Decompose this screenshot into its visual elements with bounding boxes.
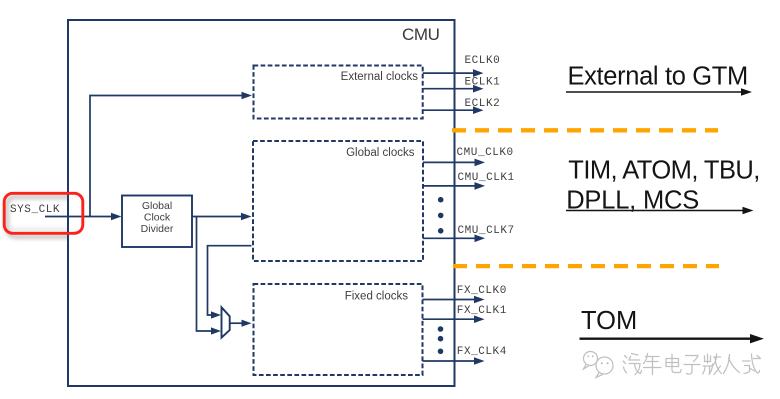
svg-text:CMU_CLK0: CMU_CLK0: [457, 147, 514, 159]
svg-text:ECLK0: ECLK0: [465, 55, 501, 67]
svg-text:FX_CLK4: FX_CLK4: [457, 346, 507, 358]
svg-text:FX_CLK1: FX_CLK1: [457, 305, 507, 317]
svg-text:External clocks: External clocks: [341, 71, 419, 83]
svg-text:CMU_CLK1: CMU_CLK1: [458, 172, 515, 184]
svg-text:TOM: TOM: [581, 307, 637, 335]
svg-text:CMU: CMU: [402, 25, 440, 44]
svg-text:Divider: Divider: [141, 223, 174, 235]
svg-text:Global: Global: [142, 200, 172, 212]
svg-text:ECLK2: ECLK2: [465, 98, 501, 110]
svg-text:ECLK1: ECLK1: [465, 77, 501, 89]
svg-text:SYS_CLK: SYS_CLK: [10, 204, 60, 216]
svg-text:External to GTM: External to GTM: [568, 63, 748, 91]
svg-text:Clock: Clock: [144, 211, 171, 223]
svg-text:CMU_CLK7: CMU_CLK7: [458, 225, 515, 237]
svg-text:Fixed clocks: Fixed clocks: [345, 291, 409, 303]
svg-text:Global clocks: Global clocks: [346, 147, 415, 159]
svg-text:FX_CLK0: FX_CLK0: [457, 285, 507, 297]
svg-text:TIM, ATOM, TBU,: TIM, ATOM, TBU,: [568, 156, 760, 184]
